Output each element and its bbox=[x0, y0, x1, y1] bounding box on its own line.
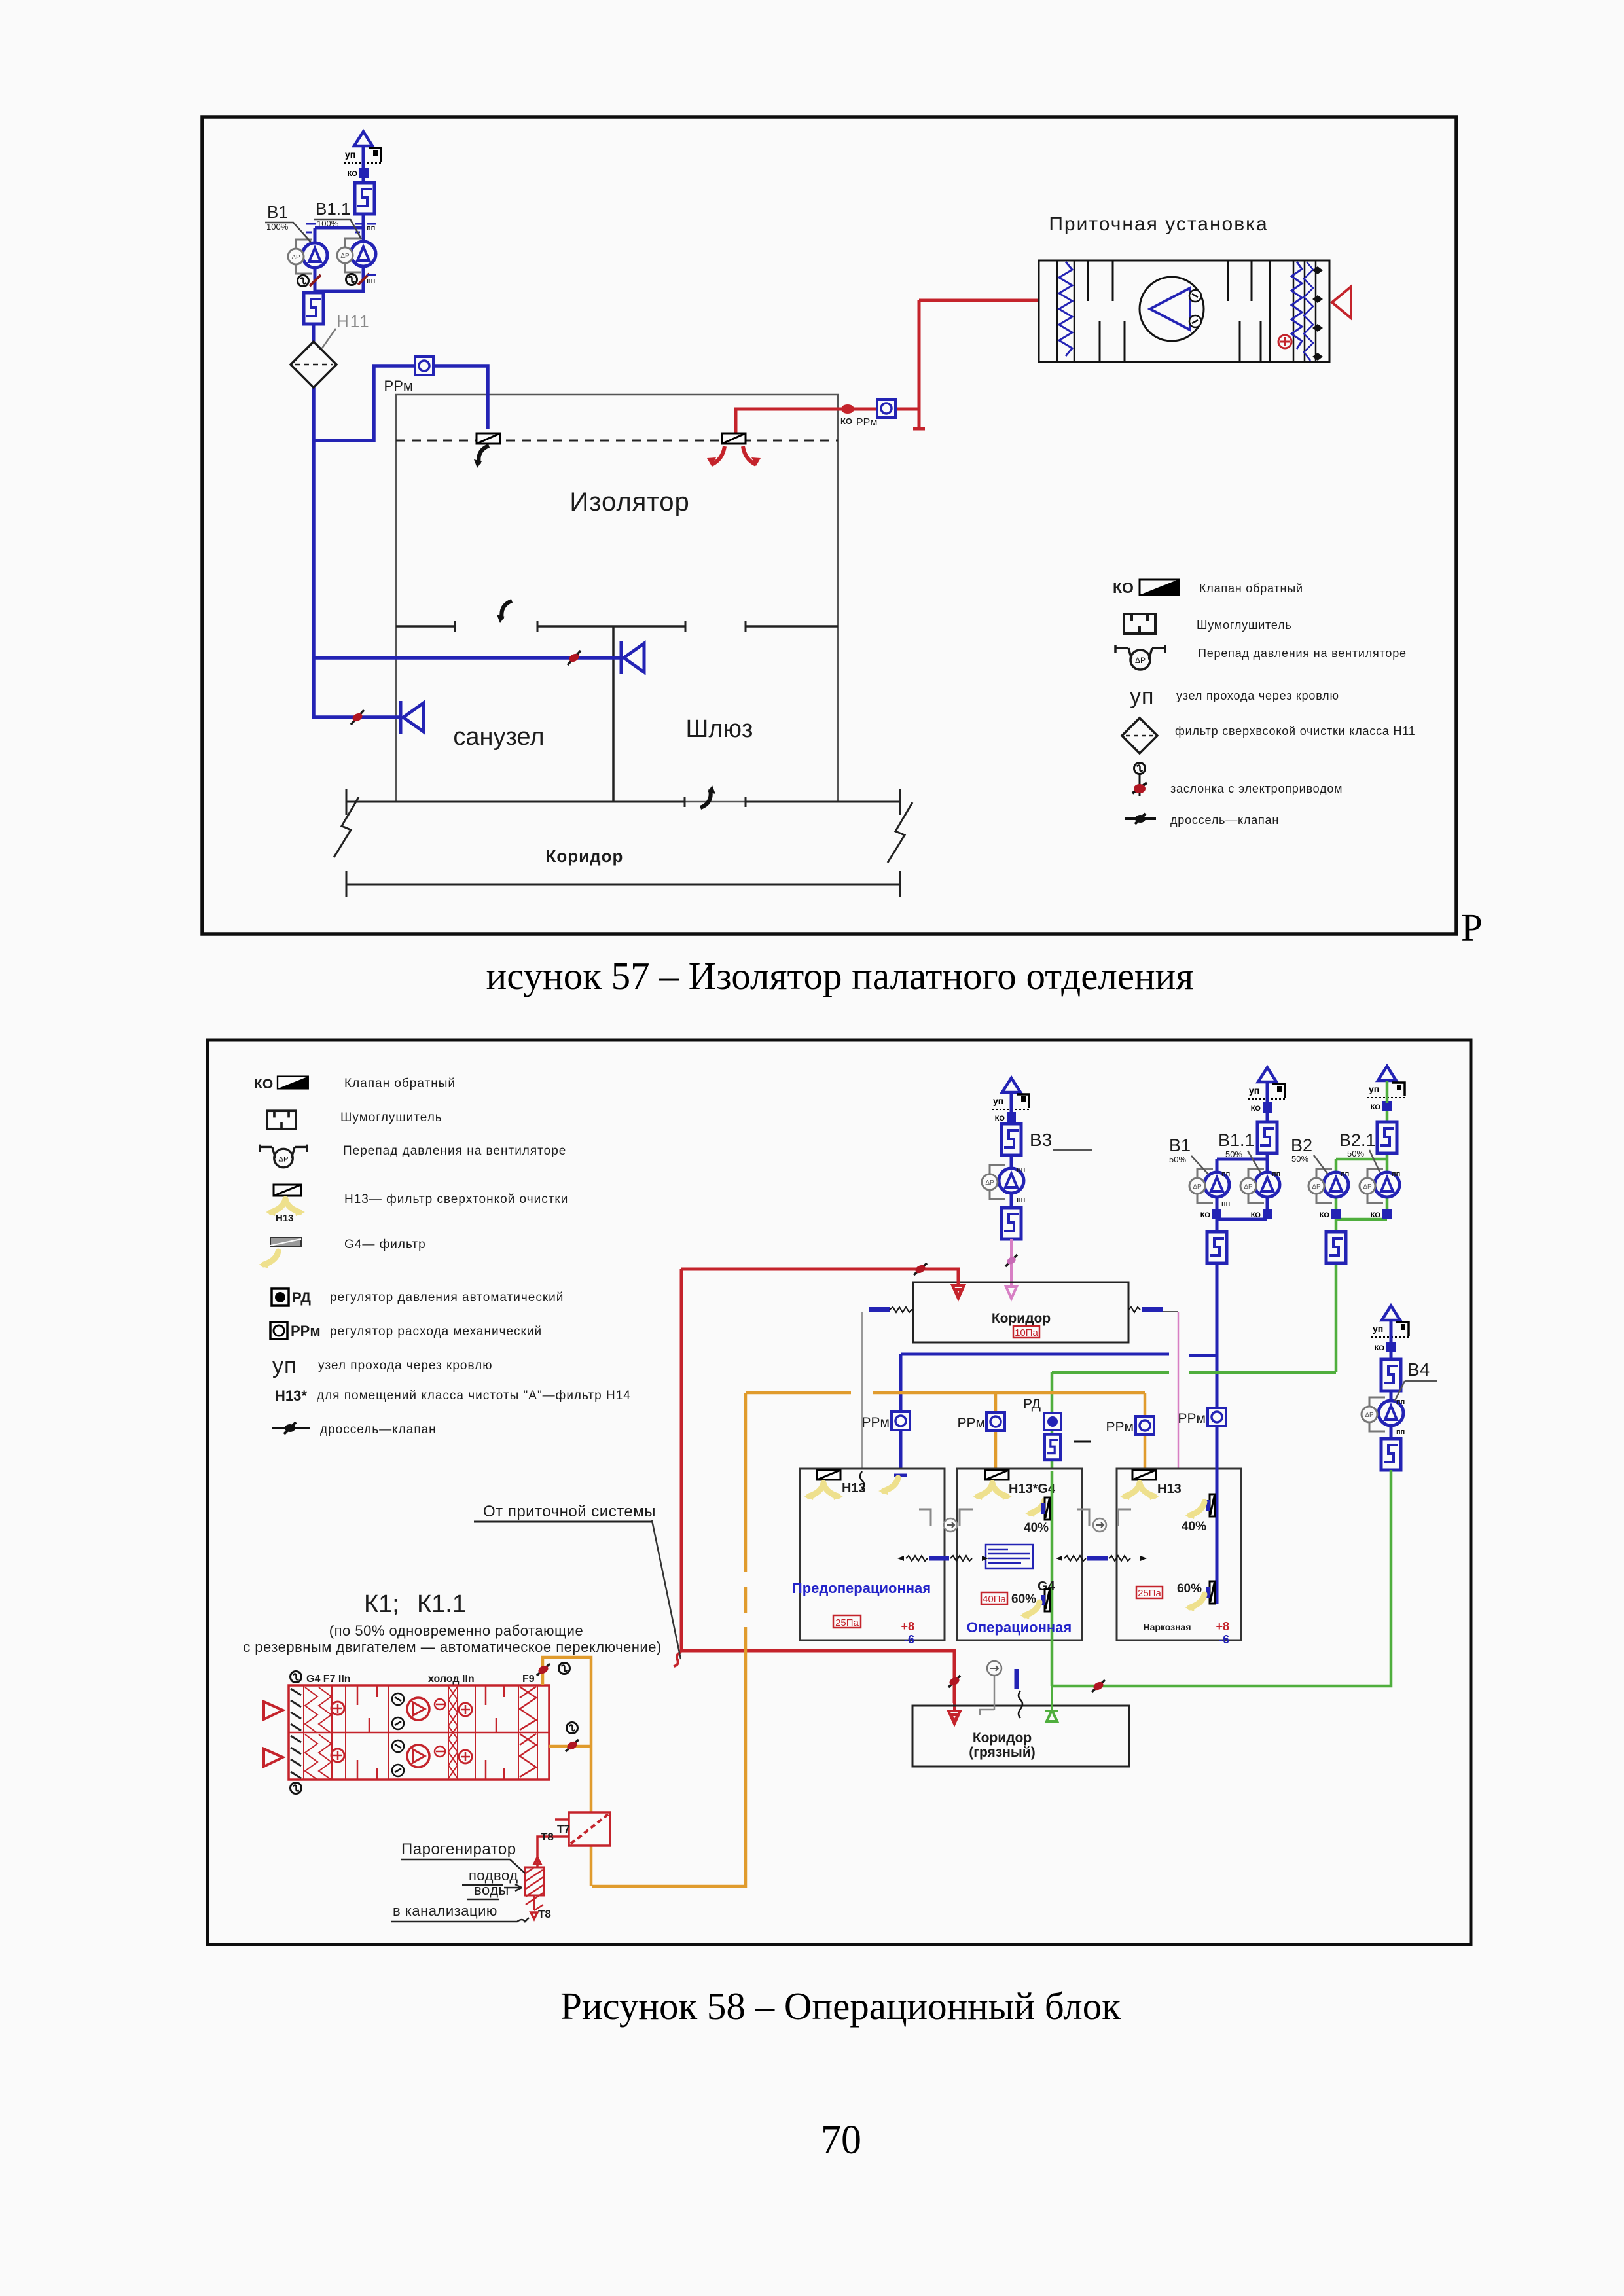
svg-text:регулятор давления автоматичес: регулятор давления автоматический bbox=[330, 1291, 564, 1304]
svg-text:Коридор: Коридор bbox=[973, 1731, 1032, 1746]
svg-text:B1: B1 bbox=[267, 202, 288, 222]
svg-text:дроссель—клапан: дроссель—клапан bbox=[320, 1423, 437, 1437]
svg-text:исунок 57 – Изолятор палатного: исунок 57 – Изолятор палатного отделения bbox=[486, 954, 1194, 997]
svg-text:Коридор: Коридор bbox=[546, 846, 624, 866]
svg-text:Шумоглушитель: Шумоглушитель bbox=[340, 1111, 442, 1124]
svg-text:Перепад давления на вентилятор: Перепад давления на вентиляторе bbox=[343, 1144, 566, 1158]
svg-text:10Па: 10Па bbox=[1015, 1327, 1038, 1338]
svg-text:B2.1: B2.1 bbox=[1339, 1130, 1376, 1150]
svg-text:РРм: РРм bbox=[291, 1323, 321, 1339]
svg-text:Шумоглушитель: Шумоглушитель bbox=[1197, 619, 1292, 632]
svg-text:100%: 100% bbox=[266, 222, 289, 232]
svg-text:регулятор расхода механический: регулятор расхода механический bbox=[330, 1325, 542, 1338]
svg-text:К1;: К1; bbox=[364, 1590, 399, 1618]
svg-text:Приточная установка: Приточная установка bbox=[1049, 213, 1268, 235]
svg-text:пп: пп bbox=[367, 224, 375, 232]
svg-text:холод IIn: холод IIn bbox=[428, 1674, 475, 1685]
svg-text:пп: пп bbox=[1272, 1170, 1280, 1178]
svg-text:40%: 40% bbox=[1182, 1520, 1206, 1534]
svg-text:От приточной системы: От приточной системы bbox=[483, 1503, 656, 1520]
svg-text:Операционная: Операционная bbox=[967, 1619, 1072, 1636]
svg-text:40Па: 40Па bbox=[983, 1594, 1006, 1605]
svg-text:50%: 50% bbox=[1225, 1149, 1242, 1159]
svg-text:Т7: Т7 bbox=[557, 1823, 570, 1835]
svg-text:Изолятор: Изолятор bbox=[569, 488, 689, 516]
svg-text:60%: 60% bbox=[1177, 1582, 1202, 1596]
svg-text:Т8: Т8 bbox=[541, 1831, 554, 1843]
svg-text:с резервным двигателем — автом: с резервным двигателем — автоматическое … bbox=[243, 1639, 662, 1655]
svg-text:B1.1: B1.1 bbox=[316, 199, 351, 219]
svg-text:B1: B1 bbox=[1169, 1136, 1191, 1155]
svg-text:пп: пп bbox=[1017, 1166, 1025, 1174]
svg-text:РРм: РРм bbox=[384, 378, 413, 394]
svg-text:Рисунок 58 – Операционный блок: Рисунок 58 – Операционный блок bbox=[560, 1984, 1121, 2028]
svg-text:РРм: РРм bbox=[1178, 1411, 1206, 1426]
svg-text:(по 50% одновременно работающи: (по 50% одновременно работающие bbox=[329, 1623, 583, 1639]
svg-text:пп: пп bbox=[1396, 1398, 1405, 1406]
svg-text:Наркозная: Наркозная bbox=[1143, 1622, 1191, 1632]
svg-text:РД: РД bbox=[292, 1289, 311, 1306]
svg-text:санузел: санузел bbox=[453, 723, 544, 751]
svg-text:для помещений класса чистоты ": для помещений класса чистоты "А"—фильтр … bbox=[317, 1389, 631, 1403]
svg-text:Перепад давления на вентилятор: Перепад давления на вентиляторе bbox=[1198, 647, 1407, 660]
svg-text:B1.1: B1.1 bbox=[1218, 1130, 1255, 1150]
svg-text:Шлюз: Шлюз bbox=[686, 715, 753, 743]
svg-text:РРм: РРм bbox=[856, 417, 877, 428]
svg-text:Н13— фильтр сверхтонкой очистк: Н13— фильтр сверхтонкой очистки bbox=[344, 1193, 568, 1206]
svg-text:КО: КО bbox=[1113, 579, 1134, 596]
svg-text:пп: пп bbox=[1392, 1170, 1400, 1178]
svg-text:Н13*: Н13* bbox=[275, 1388, 307, 1404]
svg-text:60%: 60% bbox=[1011, 1592, 1036, 1606]
svg-text:фильтр сверхвсокой очистки кла: фильтр сверхвсокой очистки класса Н11 bbox=[1175, 725, 1416, 738]
svg-text:пп: пп bbox=[367, 277, 375, 285]
svg-text:Клапан обратный: Клапан обратный bbox=[344, 1077, 456, 1090]
svg-text:+8: +8 bbox=[1216, 1620, 1229, 1633]
svg-text:Р: Р bbox=[1461, 906, 1483, 949]
svg-text:Т8: Т8 bbox=[538, 1908, 551, 1920]
svg-text:50%: 50% bbox=[1169, 1155, 1186, 1164]
svg-text:G4— фильтр: G4— фильтр bbox=[344, 1238, 426, 1251]
svg-text:заслонка с электроприводом: заслонка с электроприводом bbox=[1170, 782, 1343, 795]
svg-text:B4: B4 bbox=[1407, 1359, 1430, 1380]
svg-text:-6: -6 bbox=[1219, 1633, 1229, 1646]
svg-text:Парогениратор: Парогениратор bbox=[401, 1840, 516, 1858]
svg-text:узел прохода через кровлю: узел прохода через кровлю bbox=[1176, 689, 1339, 702]
svg-text:B2: B2 bbox=[1291, 1136, 1312, 1155]
svg-text:-6: -6 bbox=[904, 1633, 914, 1646]
svg-text:КО: КО bbox=[840, 416, 852, 426]
svg-text:(грязный): (грязный) bbox=[969, 1745, 1036, 1760]
svg-text:B3: B3 bbox=[1030, 1130, 1052, 1150]
svg-text:Предоперационная: Предоперационная bbox=[792, 1580, 931, 1596]
svg-text:уп: уп bbox=[272, 1354, 297, 1378]
svg-text:пп: пп bbox=[1221, 1170, 1230, 1178]
svg-text:25Па: 25Па bbox=[1138, 1588, 1161, 1599]
svg-text:Клапан обратный: Клапан обратный bbox=[1199, 582, 1303, 595]
svg-text:уп: уп bbox=[1130, 684, 1154, 709]
svg-text:40%: 40% bbox=[1024, 1521, 1049, 1535]
svg-text:РД: РД bbox=[1023, 1397, 1041, 1412]
svg-text:Н11: Н11 bbox=[336, 312, 370, 331]
svg-text:пп: пп bbox=[1221, 1200, 1230, 1208]
svg-text:Н13*G4: Н13*G4 bbox=[1009, 1482, 1056, 1496]
svg-text:Коридор: Коридор bbox=[992, 1311, 1051, 1326]
svg-text:в канализацию: в канализацию bbox=[393, 1903, 497, 1919]
svg-text:узел прохода через кровлю: узел прохода через кровлю bbox=[318, 1359, 493, 1372]
svg-text:пп: пп bbox=[1341, 1170, 1349, 1178]
svg-text:50%: 50% bbox=[1291, 1154, 1308, 1164]
svg-text:Н13: Н13 bbox=[276, 1213, 294, 1224]
svg-text:G4 F7 IIn: G4 F7 IIn bbox=[306, 1674, 351, 1685]
svg-text:25Па: 25Па bbox=[835, 1617, 859, 1628]
svg-text:дроссель—клапан: дроссель—клапан bbox=[1170, 814, 1279, 827]
svg-text:РРм: РРм bbox=[862, 1415, 890, 1430]
svg-text:пп: пп bbox=[1396, 1428, 1405, 1436]
svg-text:КО: КО bbox=[254, 1077, 273, 1092]
svg-text:+8: +8 bbox=[901, 1620, 914, 1633]
svg-text:Н13: Н13 bbox=[1157, 1482, 1182, 1496]
svg-text:70: 70 bbox=[821, 2118, 861, 2162]
svg-text:РРм: РРм bbox=[1106, 1420, 1134, 1435]
svg-text:пп: пп bbox=[1017, 1196, 1025, 1204]
svg-text:50%: 50% bbox=[1347, 1149, 1364, 1158]
svg-text:К1.1: К1.1 bbox=[417, 1590, 466, 1618]
svg-text:РРм: РРм bbox=[958, 1416, 985, 1431]
svg-text:F9: F9 bbox=[522, 1674, 535, 1685]
svg-text:100%: 100% bbox=[317, 219, 339, 228]
